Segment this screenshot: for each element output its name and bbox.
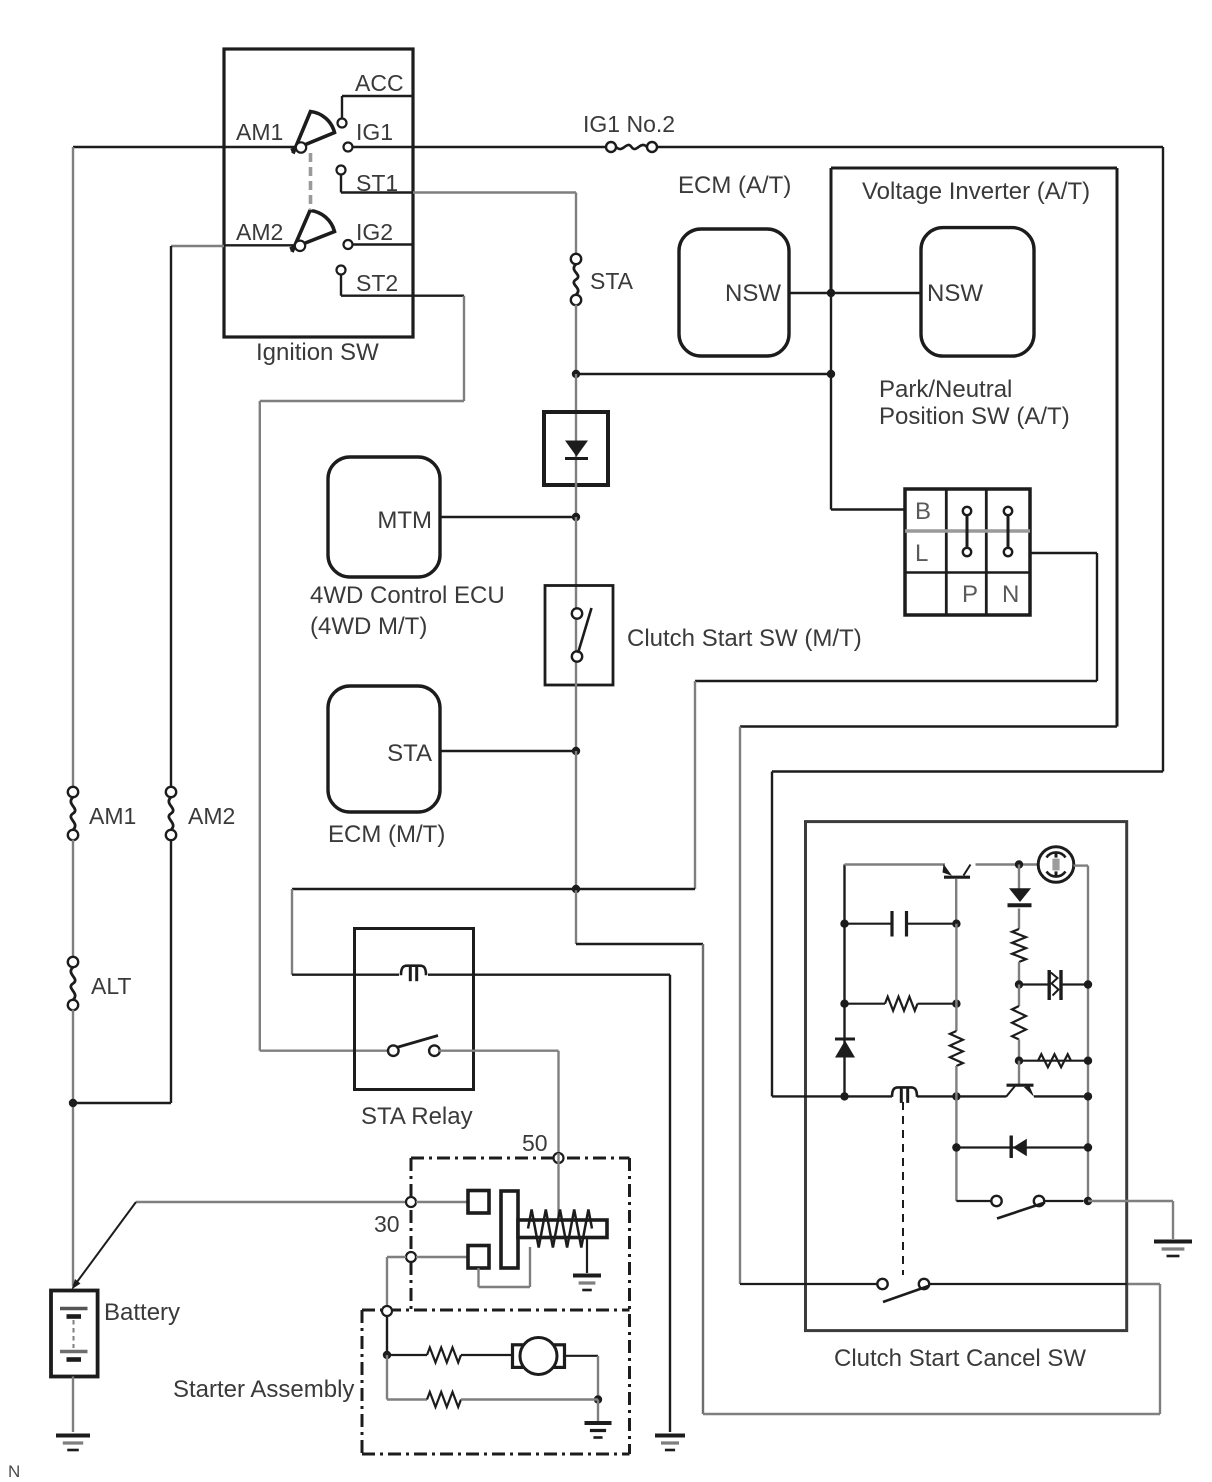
- cancel switch 2 wire: [740, 1283, 879, 1285]
- wire NSW to NSW: [789, 292, 921, 294]
- wire shunt lower east: [461, 1398, 598, 1400]
- starter motor box bottom: [362, 1453, 630, 1456]
- solenoid contact square upper: [468, 1191, 489, 1214]
- svg-text:ACC: ACC: [355, 70, 404, 96]
- relay coil wire west: [292, 974, 399, 976]
- solenoid contact square lower: [468, 1246, 489, 1269]
- wire clutch SW down: [575, 685, 577, 751]
- svg-text:STA: STA: [387, 740, 432, 767]
- wire through diode box: [575, 414, 577, 517]
- cancel mid rail upper: [955, 924, 957, 1031]
- svg-text:ST2: ST2: [356, 270, 398, 296]
- wire node down to clutch SW: [575, 517, 577, 587]
- indicator lamp: [1038, 847, 1074, 883]
- cancel top wire: [845, 863, 946, 865]
- wire AM1 feeder horizontal: [73, 146, 224, 148]
- fuse IG1 No.2: [606, 142, 616, 152]
- svg-text:MTM: MTM: [377, 507, 432, 534]
- terminal IG1 contact: [344, 143, 353, 152]
- wire AM2 join to battery node: [73, 1102, 171, 1104]
- svg-text:(4WD M/T): (4WD M/T): [310, 613, 427, 640]
- junction coil right node: [1084, 1092, 1092, 1100]
- transistor Q2: [1007, 1084, 1034, 1087]
- svg-text:P: P: [962, 581, 978, 608]
- junction C1 right node: [952, 920, 960, 928]
- svg-text:Park/Neutral: Park/Neutral: [879, 376, 1012, 403]
- wire IG1 No.2 down right side: [1162, 147, 1164, 772]
- diode D2 (lamp branch): [1009, 888, 1031, 902]
- svg-text:N: N: [1002, 581, 1019, 608]
- wire lamp branch down: [1018, 865, 1020, 890]
- junction R5 node: [1015, 1057, 1023, 1065]
- voltage inverter outline left: [830, 168, 833, 293]
- wire to position switch B row: [831, 508, 905, 510]
- voltage inverter outline top: [831, 167, 1117, 170]
- junction NSW/STA branch node: [827, 370, 835, 378]
- wire STA(M/T) to node: [440, 750, 576, 752]
- STA relay box: [355, 929, 474, 1090]
- wire AM2 feeder horizontal: [171, 245, 224, 247]
- wire Q1 to lamp node: [976, 863, 1041, 865]
- svg-text:30: 30: [374, 1211, 400, 1237]
- resistor R4: [1012, 1006, 1026, 1040]
- diode D4: [1010, 1136, 1013, 1159]
- ground (cancel SW): [1154, 1240, 1192, 1244]
- battery diagonal lead: [74, 1202, 136, 1286]
- wire motor down: [597, 1356, 599, 1400]
- wire ALT fuse to battery: [72, 1010, 74, 1287]
- junction coil mid node: [952, 1092, 960, 1100]
- resistor field lower: [427, 1392, 461, 1407]
- cancel switch 2 contacts: [877, 1279, 887, 1289]
- svg-text:NSW: NSW: [927, 280, 983, 307]
- cancel switch 1 wire: [956, 1200, 992, 1202]
- wire up to cancel lower switch: [1159, 1284, 1161, 1414]
- starter boxes shared edge: [362, 1309, 630, 1312]
- junction coil left node: [840, 1092, 848, 1100]
- table contact pair col3: [1004, 507, 1012, 515]
- terminal C node: [406, 1252, 416, 1262]
- ignition rotor wedge AM1: [291, 112, 335, 154]
- svg-text:AM1: AM1: [89, 803, 136, 829]
- junction STA(M/T) node: [572, 747, 580, 755]
- terminal IG2 contact: [344, 240, 353, 249]
- svg-text:ALT: ALT: [91, 973, 131, 999]
- clutch start SW contacts: [572, 608, 582, 618]
- wire AM1 feeder vertical upper: [72, 147, 74, 788]
- junction switch node: [1084, 1197, 1092, 1205]
- wire ST1 out of box: [413, 191, 576, 193]
- transistor Q1: [944, 876, 970, 879]
- junction D4 left node: [952, 1143, 960, 1151]
- wire ST2 down: [463, 296, 465, 401]
- wire down from table: [1096, 553, 1098, 681]
- fuse ALT: [68, 957, 78, 967]
- wire IG2 inside box: [353, 243, 414, 245]
- wire MTM to node: [440, 516, 576, 518]
- relay switch contacts: [388, 1045, 399, 1056]
- wire into diode box: [575, 374, 577, 414]
- solenoid plunger bar: [501, 1191, 518, 1268]
- junction NSW node: [827, 289, 835, 297]
- junction battery node: [69, 1099, 77, 1107]
- svg-text:STA: STA: [590, 268, 634, 294]
- junction motor node: [383, 1351, 391, 1359]
- wire battery to terminal 30: [136, 1201, 406, 1203]
- svg-text:B: B: [915, 498, 931, 525]
- capacitor C1: [890, 911, 893, 937]
- wire terminal C down: [386, 1257, 388, 1306]
- wire to R4: [1018, 985, 1020, 1007]
- svg-text:Voltage Inverter (A/T): Voltage Inverter (A/T): [862, 178, 1090, 205]
- ground (solenoid): [573, 1274, 601, 1278]
- ground (starter motor): [585, 1421, 612, 1425]
- fuse AM1: [68, 787, 78, 797]
- junction MTM node: [572, 513, 580, 521]
- table grid column lines: [945, 489, 948, 615]
- wire D2 to R3: [1018, 909, 1020, 930]
- wire node to NSW branch: [576, 373, 831, 375]
- motor terminal node: [382, 1306, 392, 1316]
- voltage inverter outline right: [1116, 168, 1119, 727]
- voltage inverter NSW box: [921, 228, 1034, 357]
- resistor field upper: [427, 1348, 461, 1363]
- ECM (A/T) NSW box: [679, 229, 789, 356]
- wire node down: [575, 889, 577, 944]
- svg-text:Clutch Start SW (M/T): Clutch Start SW (M/T): [627, 625, 862, 652]
- wire node down to relay net: [575, 751, 577, 889]
- svg-text:4WD Control ECU: 4WD Control ECU: [310, 582, 505, 609]
- cancel switch 1 contacts: [991, 1196, 1001, 1206]
- wire motor terminal down: [386, 1316, 388, 1355]
- wire ST1 stub: [340, 175, 342, 193]
- wire down to relay coil bus: [694, 681, 696, 889]
- wire motor east: [565, 1355, 599, 1357]
- starter solenoid box top: [411, 1157, 630, 1160]
- wire R4 down: [1018, 1040, 1020, 1061]
- cancel relay coil L2: [892, 1087, 917, 1097]
- svg-text:L: L: [915, 540, 928, 567]
- svg-text:AM2: AM2: [188, 803, 235, 829]
- battery plate short bottom: [67, 1357, 82, 1362]
- diode branch wire: [956, 1146, 1088, 1148]
- wire down to cancel switch 2: [739, 727, 741, 1285]
- starter motor M: [513, 1345, 523, 1368]
- wire arm to ground: [586, 1239, 588, 1274]
- wire bottom bus east: [703, 1413, 1160, 1415]
- svg-text:AM1: AM1: [236, 119, 283, 145]
- svg-text:ECM (M/T): ECM (M/T): [328, 821, 445, 848]
- svg-text:Starter Assembly: Starter Assembly: [173, 1376, 354, 1403]
- wire AM2 to pivot: [224, 244, 296, 246]
- wire ST2 west at y401: [260, 400, 464, 402]
- ground (battery): [56, 1434, 90, 1438]
- wire to field resistor: [387, 1354, 427, 1356]
- wire NSW node down: [830, 293, 832, 510]
- wire ST2 east: [413, 295, 464, 297]
- wire 50 into spring: [557, 1153, 559, 1220]
- svg-text:AM2: AM2: [236, 219, 283, 245]
- wire relay coil bus west: [292, 888, 695, 890]
- svg-text:N: N: [8, 1462, 20, 1481]
- solenoid plunger arm: [518, 1220, 607, 1238]
- wire resistor to motor: [461, 1354, 512, 1356]
- wire down to terminal 50: [557, 1051, 559, 1153]
- svg-text:ST1: ST1: [356, 170, 398, 196]
- svg-text:50: 50: [522, 1130, 548, 1156]
- svg-text:ECM (A/T): ECM (A/T): [678, 172, 791, 199]
- battery plate long bottom: [60, 1350, 88, 1353]
- surge absorber (hatched bars): [1047, 970, 1050, 1000]
- battery plate short top: [67, 1314, 82, 1319]
- wire IG1 No.2 east: [657, 146, 1164, 148]
- wire ground drop: [1172, 1201, 1174, 1239]
- wire shunt lower: [387, 1398, 427, 1400]
- ignition switch box (Ignition SW): [224, 49, 413, 337]
- terminal ACC contact: [338, 119, 347, 128]
- cancel coil wire: [772, 1095, 892, 1097]
- svg-text:Ignition SW: Ignition SW: [256, 339, 379, 366]
- cancel mid rail lower: [955, 1066, 957, 1201]
- svg-text:Battery: Battery: [104, 1299, 180, 1326]
- wire AM1 to pivot: [224, 146, 297, 148]
- wire R3 down: [1018, 962, 1020, 985]
- svg-text:Clutch Start Cancel SW: Clutch Start Cancel SW: [834, 1345, 1086, 1372]
- wire between AM1 and ALT fuses: [72, 840, 74, 958]
- solenoid return spring: [528, 1210, 592, 1248]
- wire to Q2 base: [1018, 1061, 1020, 1085]
- resistor R1: [885, 997, 918, 1011]
- capacitor branch wire: [845, 923, 893, 925]
- wire STA fuse down: [575, 305, 577, 375]
- table contact pair col2: [963, 507, 971, 515]
- junction surge right node: [1084, 980, 1092, 988]
- wire shunt west: [386, 1355, 388, 1400]
- clutch start switch box: [545, 586, 613, 686]
- svg-text:IG1: IG1: [356, 119, 393, 145]
- cancel far right rail: [1087, 866, 1089, 1201]
- starter motor box left: [361, 1310, 364, 1454]
- svg-text:NSW: NSW: [725, 280, 781, 307]
- resistor R5 branch wire: [1019, 1060, 1088, 1062]
- pivot contact AM1: [296, 142, 306, 152]
- wire ST2 stub: [340, 275, 342, 296]
- svg-text:IG1 No.2: IG1 No.2: [583, 111, 675, 137]
- wire ACC stub: [341, 96, 343, 119]
- wire lower contact loop: [477, 1268, 479, 1287]
- wire to relay switch: [260, 1049, 389, 1051]
- wire through clutch SW box: [575, 587, 577, 685]
- wire jog east at y944: [576, 943, 703, 945]
- terminal ST2 contact: [337, 266, 346, 275]
- wire terminal C west: [387, 1256, 406, 1258]
- wire ST1 down to STA fuse: [575, 193, 577, 255]
- resistor R3: [1012, 929, 1026, 962]
- junction R1 left node: [840, 1000, 848, 1008]
- relay switch blade: [397, 1036, 439, 1048]
- clutch start SW blade: [578, 608, 592, 653]
- wire inverter bottom west: [740, 725, 1117, 728]
- wire to external ground: [1088, 1200, 1173, 1202]
- terminal 30 node: [406, 1197, 416, 1207]
- battery internal dashed link: [73, 1320, 75, 1348]
- wire IG1 No.2 down to cancel coil: [771, 772, 773, 1097]
- wire IG1 No.2 west at y771: [772, 770, 1163, 772]
- wire into cancel lower switch: [1127, 1283, 1160, 1285]
- resistor R2: [950, 1031, 963, 1066]
- junction C1 left node: [840, 920, 848, 928]
- relay coil wire east: [428, 974, 670, 976]
- ECM (M/T) STA box: [328, 686, 440, 812]
- battery box: [51, 1291, 98, 1377]
- wire coil return down: [669, 975, 671, 1432]
- terminal ST1 contact: [337, 166, 346, 175]
- ground (coil return): [655, 1434, 685, 1438]
- svg-text:IG2: IG2: [356, 219, 393, 245]
- wire ST2 long drop: [259, 401, 261, 1051]
- junction D4 right node: [1084, 1143, 1092, 1151]
- junction surge node: [1015, 980, 1023, 988]
- cancel left rail: [843, 865, 845, 1097]
- svg-text:STA Relay: STA Relay: [361, 1103, 473, 1130]
- diode D3 (left rail): [835, 1038, 855, 1041]
- junction lamp branch node: [1015, 860, 1023, 868]
- diode box outline: [544, 412, 608, 485]
- fuse STA: [571, 254, 581, 264]
- terminal 50 node: [554, 1153, 564, 1163]
- svg-text:Position SW (A/T): Position SW (A/T): [879, 403, 1070, 430]
- wire IG1 inside box: [353, 146, 414, 148]
- wire battery to ground: [72, 1377, 74, 1433]
- relay coil L1: [401, 966, 426, 976]
- mechanical link (dashed) between AM1 and AM2 rotors: [309, 153, 313, 210]
- solenoid contact terminal 30 wire: [416, 1201, 468, 1203]
- junction R5 right node: [1084, 1057, 1092, 1065]
- 4WD control ECU MTM box: [328, 457, 440, 577]
- surge branch wire: [1019, 983, 1048, 985]
- starter solenoid box left: [410, 1158, 413, 1310]
- wire AM2 fuse down to junction: [170, 840, 172, 1104]
- table grid row lines: [905, 529, 1030, 533]
- pivot contact AM2: [295, 241, 305, 251]
- junction STA/NSW node: [572, 370, 580, 378]
- ignition rotor wedge AM2: [290, 211, 335, 253]
- wire L row east: [1030, 552, 1097, 554]
- junction R1 right node: [952, 1000, 960, 1008]
- junction relay-coil node: [572, 885, 580, 893]
- wire relay switch east: [439, 1049, 559, 1051]
- wire to motor ground: [597, 1400, 599, 1422]
- starter box right: [628, 1158, 631, 1454]
- wire down to bottom bus: [702, 944, 704, 1414]
- wire west at y681: [695, 680, 1097, 682]
- resistor R5: [1038, 1054, 1071, 1067]
- solenoid contact terminal C wire: [416, 1256, 468, 1258]
- park/neutral position SW table outline: [905, 489, 1030, 615]
- fuse AM2: [166, 787, 176, 797]
- wire down to relay coil line: [291, 889, 293, 975]
- diode D1 (in box): [565, 441, 588, 457]
- cancel switch 1 blade: [997, 1203, 1045, 1219]
- cancel switch 2 blade: [883, 1286, 929, 1302]
- battery plate long top: [60, 1307, 88, 1310]
- mechanical link dashed (cancel): [902, 1102, 904, 1275]
- wire AM2 feeder vertical upper: [170, 246, 172, 788]
- wire IG1 to fuse: [413, 146, 607, 148]
- resistor R1 branch wire: [845, 1003, 886, 1005]
- junction motor ground node: [594, 1395, 602, 1403]
- clutch start cancel SW box: [806, 822, 1127, 1331]
- wire lamp east: [1074, 864, 1089, 866]
